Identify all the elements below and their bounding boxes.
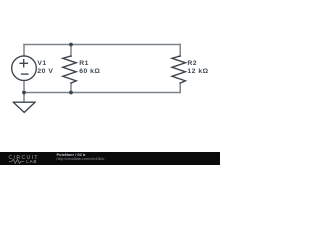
- svg-text:R2: R2: [187, 60, 197, 67]
- wire R1 bottom lead: [70, 83, 72, 93]
- resistor R2 zigzag: [172, 56, 186, 83]
- wire R2 bottom lead: [179, 83, 181, 93]
- svg-text:V1: V1: [37, 60, 46, 67]
- ground: [13, 102, 35, 112]
- wire R2 top lead: [179, 45, 181, 57]
- CircuitLab logo zigzag: [9, 159, 24, 163]
- svg-text:60 kΩ: 60 kΩ: [79, 68, 100, 75]
- node junction dot R1 top: [69, 43, 73, 47]
- node junction dot R1 bottom: [69, 91, 73, 95]
- voltage source V1: [12, 56, 37, 81]
- svg-text:http://circuitlab.com/c/e43kfc: http://circuitlab.com/c/e43kfc: [57, 157, 105, 161]
- CircuitLab logo wordmark: [9, 155, 39, 164]
- svg-text:LAB: LAB: [26, 159, 37, 164]
- footer bar: [0, 152, 220, 165]
- svg-text:12 kΩ: 12 kΩ: [187, 68, 208, 75]
- wire top horizontal net: [24, 44, 180, 46]
- V1 minus sign: [22, 73, 28, 75]
- V1 plus sign: [20, 60, 27, 67]
- wire R1 top lead: [70, 45, 72, 57]
- svg-text:20 V: 20 V: [37, 68, 53, 75]
- svg-text:R1: R1: [79, 60, 89, 67]
- resistor R1 zigzag: [63, 56, 77, 83]
- wire bottom horizontal net: [24, 92, 180, 94]
- wire V1 bottom lead: [23, 81, 25, 93]
- wire V1 top lead: [23, 45, 25, 57]
- wire ground stub: [23, 93, 25, 102]
- node junction dot V1 bottom: [22, 91, 26, 95]
